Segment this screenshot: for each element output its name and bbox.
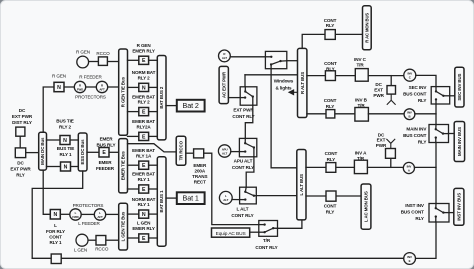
- relay RCCO right: [98, 57, 107, 66]
- relay EXT PWR CONT RLY: [240, 87, 257, 105]
- label INV B T/R: [355, 97, 368, 108]
- wire: [106, 239, 119, 241]
- svg-text:RCCO: RCCO: [96, 51, 110, 56]
- relay windows-lights feed: [265, 51, 286, 68]
- svg-text:EMER BAT: EMER BAT: [132, 172, 155, 177]
- svg-text:R GEN: R GEN: [137, 43, 152, 48]
- wire SEC relay to MAIN relay: [435, 104, 437, 125]
- label INV C T/R: [354, 57, 367, 67]
- svg-text:FEEDER: FEEDER: [96, 166, 115, 171]
- label SEC INV BUS CONT RLY: [403, 85, 427, 103]
- wire: [81, 213, 94, 215]
- protector L FWD: [70, 209, 81, 220]
- alternator APU ALT: [218, 145, 230, 157]
- relay EMER BAT RLY 2: [139, 108, 149, 116]
- svg-text:EMER: EMER: [193, 163, 207, 168]
- svg-text:PWR: PWR: [376, 143, 387, 148]
- wire INV B to chain: [415, 113, 436, 115]
- svg-text:RLY: RLY: [326, 23, 335, 28]
- svg-text:L FEEDER: L FEEDER: [78, 221, 100, 226]
- svg-text:CONT RLY: CONT RLY: [231, 213, 253, 218]
- wire: [47, 166, 61, 168]
- bus L GEN TIE BUS: [119, 203, 128, 250]
- svg-text:N: N: [57, 85, 61, 91]
- label CONT RLY INV B: [324, 98, 337, 109]
- relay MAIN INV BUS CONT RLY: [429, 125, 449, 143]
- transformer-rectifier INV A T/R: [354, 160, 367, 173]
- svg-text:NORM BAT: NORM BAT: [132, 197, 156, 202]
- svg-text:Equip AC BUS: Equip AC BUS: [216, 231, 246, 237]
- generator L GEN: [76, 234, 88, 246]
- svg-text:TRANS: TRANS: [192, 174, 207, 179]
- wire: [307, 113, 326, 115]
- label EMER BUS RLY: [96, 137, 115, 148]
- svg-text:EXT PWR: EXT PWR: [233, 108, 254, 113]
- svg-text:R GEN: R GEN: [76, 50, 90, 55]
- connector DC EXT PWR C: [387, 86, 396, 95]
- svg-text:CONT: CONT: [49, 234, 62, 239]
- label DC EXT PWR C: [373, 82, 384, 98]
- label DC EXT PWR DIST RLY: [12, 108, 33, 125]
- label APU ALT CONT RLY: [232, 159, 254, 171]
- wire: [109, 151, 119, 153]
- wire: [86, 86, 97, 88]
- svg-text:R AC MON BUS: R AC MON BUS: [364, 13, 369, 43]
- svg-text:MAIN DC Bus: MAIN DC Bus: [40, 137, 45, 165]
- label EXT PWR CONT RLY: [232, 108, 254, 120]
- svg-text:EMER BAT: EMER BAT: [132, 148, 155, 153]
- relay CONT RLY R AC MON: [325, 30, 335, 40]
- svg-text:L ALT BUS: L ALT BUS: [299, 174, 304, 196]
- relay L ALT CONT RLY: [240, 187, 257, 204]
- bus MAIN DC BUS: [39, 132, 47, 170]
- svg-text:T/R: T/R: [263, 238, 271, 243]
- wire MAIN relay to INST relay: [435, 143, 437, 204]
- svg-text:N: N: [53, 212, 57, 218]
- wire: [166, 105, 177, 107]
- relay N R GEN: [54, 82, 64, 91]
- svg-text:B: B: [409, 115, 411, 119]
- label CONT RLY R AC MON: [324, 18, 337, 28]
- inverter INV E: [404, 253, 416, 265]
- svg-text:AFT: AFT: [99, 87, 105, 91]
- svg-text:DC: DC: [375, 82, 382, 87]
- ground DC EXT PWR A: [386, 139, 395, 149]
- relay EMER BAT RLY 2A: [139, 132, 149, 140]
- wire MAIN DC BUS down to L N relay: [43, 170, 50, 214]
- svg-text:L: L: [54, 223, 57, 228]
- svg-text:Bat 2: Bat 2: [183, 101, 199, 110]
- svg-text:RLY: RLY: [16, 173, 25, 178]
- svg-text:AC EXT PWR: AC EXT PWR: [221, 71, 226, 98]
- relay CONT RLY L AC MON: [326, 191, 336, 201]
- relay APU ALT CONT RLY: [239, 138, 256, 156]
- bus R AC MON BUS: [363, 6, 372, 50]
- svg-text:EXT: EXT: [374, 88, 383, 93]
- svg-text:CONT: CONT: [324, 98, 337, 103]
- svg-text:ALT: ALT: [223, 198, 228, 202]
- relay N L GEN: [50, 210, 60, 220]
- label T/R CONT RLY: [255, 238, 277, 250]
- wire L ALT to relay: [232, 199, 240, 201]
- bus SEC INV BUS: [455, 67, 464, 107]
- svg-text:EXT PWR: EXT PWR: [10, 167, 31, 172]
- svg-text:RLY 1: RLY 1: [138, 202, 151, 207]
- svg-text:EMER: EMER: [99, 160, 113, 165]
- svg-text:PWR: PWR: [373, 93, 384, 98]
- rectifier EMER 200A TRANS RECT: [194, 149, 204, 158]
- wire: [335, 113, 355, 115]
- svg-text:RLY: RLY: [418, 98, 427, 103]
- relay INST INV BUS CONT RLY: [429, 204, 449, 223]
- wire trans-rect to T/R cont rly: [204, 153, 259, 224]
- label EMER BAT RLY 1: [132, 172, 155, 182]
- svg-text:RLY: RLY: [327, 157, 336, 162]
- svg-text:DC: DC: [17, 161, 24, 166]
- relay BUS TIE RLY 2: [60, 136, 70, 145]
- svg-text:RCCO: RCCO: [95, 246, 109, 251]
- wire: [149, 86, 158, 88]
- wire: [89, 61, 99, 63]
- relay NORM BAT RLY 2: [139, 83, 149, 91]
- label EMER 200A TRANS RECT: [192, 163, 207, 185]
- svg-text:INST INV: INST INV: [405, 203, 425, 208]
- bus L AC MON BUS: [361, 184, 371, 229]
- svg-text:MAIN INV: MAIN INV: [406, 127, 427, 132]
- svg-text:FWD: FWD: [72, 215, 78, 219]
- wire: [186, 152, 194, 154]
- svg-text:RLY 1: RLY 1: [49, 240, 62, 245]
- svg-text:BUS TIE: BUS TIE: [56, 119, 73, 124]
- svg-text:CONT RLY: CONT RLY: [232, 165, 254, 170]
- svg-text:CONT: CONT: [324, 61, 337, 66]
- svg-text:CONT RLY: CONT RLY: [255, 245, 277, 250]
- ground DC EXT PWR C: [387, 94, 396, 105]
- label EMER BAT RLY 2: [132, 94, 155, 104]
- inverter INV B: [404, 109, 415, 120]
- relay NORM BAT RLY 1: [139, 210, 149, 218]
- wire: [87, 151, 99, 153]
- wire INV A to chain: [415, 166, 437, 168]
- wire: [336, 33, 363, 35]
- svg-text:APU ALT: APU ALT: [234, 159, 253, 164]
- svg-text:SEC INV BUS: SEC INV BUS: [457, 73, 462, 100]
- label MAIN INV BUS CONT RLY: [403, 127, 427, 145]
- label EMER BAT RLY 1A: [132, 148, 155, 158]
- bus AC EXT PWR: [219, 66, 228, 103]
- svg-text:CONT: CONT: [325, 151, 338, 156]
- svg-text:200A: 200A: [195, 168, 206, 173]
- svg-text:RLY: RLY: [418, 140, 427, 145]
- label R GEN EMER RLY: [132, 43, 155, 53]
- wire tie to R ALT BUS: [245, 74, 298, 76]
- wire: [149, 237, 158, 239]
- transformer-rectifier INV B T/R: [355, 108, 369, 122]
- inverter INV A: [403, 162, 414, 173]
- wire: [128, 135, 139, 137]
- wire down to L ALT BUS: [271, 69, 297, 168]
- label BUS TIE RLY 1: [57, 146, 74, 157]
- alternator R ALT: [219, 50, 231, 62]
- relay RCCO left: [96, 236, 106, 246]
- svg-text:N: N: [64, 164, 68, 170]
- svg-text:EMER RLY: EMER RLY: [132, 226, 155, 231]
- wire: [128, 164, 139, 166]
- svg-text:INV A: INV A: [355, 150, 367, 155]
- svg-text:BUS CONT: BUS CONT: [403, 133, 426, 138]
- wire: [60, 213, 69, 215]
- wire EMER TIE BUS to TR RCCO: [128, 144, 177, 152]
- wire ESS DC BUS down-left: [32, 171, 82, 258]
- label DC EXT PWR RLY: [10, 161, 31, 178]
- wire: [149, 111, 158, 113]
- wire APU ALT to relay: [231, 151, 240, 153]
- bus INST INV BUS: [454, 188, 464, 225]
- wire EXT PWR relay to APU relay: [245, 105, 253, 138]
- inverter INV C: [404, 69, 416, 81]
- svg-text:FWD: FWD: [77, 87, 83, 91]
- wire: [306, 166, 326, 168]
- svg-text:N: N: [142, 85, 146, 91]
- label L GEN EMER RLY: [132, 221, 155, 231]
- svg-text:EXT: EXT: [377, 138, 386, 143]
- wire: [88, 239, 96, 241]
- wire R ALT to relay: [230, 56, 265, 58]
- label NORM BAT RLY 1: [132, 197, 156, 207]
- connector DC EXT PWR A: [386, 149, 396, 159]
- svg-text:EMER BAT: EMER BAT: [132, 94, 155, 99]
- wire: [128, 213, 139, 215]
- wire stub DC EXT PWR A: [390, 158, 392, 167]
- svg-text:T/R: T/R: [356, 62, 364, 67]
- svg-text:INV C: INV C: [354, 57, 367, 62]
- wire: [128, 188, 139, 190]
- svg-text:L ALT: L ALT: [237, 207, 249, 212]
- protector R AFT: [96, 81, 107, 92]
- wire stub DC EXT PWR C: [390, 76, 392, 86]
- svg-text:INV B: INV B: [355, 97, 368, 102]
- label NORM BAT RLY 2: [132, 70, 156, 80]
- wire: [367, 166, 403, 168]
- svg-text:BUS TIE: BUS TIE: [57, 146, 74, 151]
- svg-text:R FEEDER: R FEEDER: [79, 74, 102, 79]
- wire INV C to SEC relay: [416, 75, 436, 86]
- transformer-rectifier INV C T/R: [355, 69, 368, 82]
- svg-text:RLY 2: RLY 2: [138, 100, 151, 105]
- wire: [149, 213, 158, 215]
- wire APU relay to L ALT relay: [246, 157, 254, 187]
- svg-text:RLY: RLY: [415, 216, 424, 221]
- label INV A T/R: [355, 150, 367, 160]
- wire: [306, 195, 326, 197]
- svg-text:R GEN: R GEN: [52, 74, 66, 79]
- alternator L ALT: [219, 191, 232, 204]
- wire: [336, 166, 355, 168]
- bus MAIN INV BUS: [454, 122, 464, 162]
- relay TR RCCO: [176, 136, 186, 165]
- svg-text:R ALT BUS: R ALT BUS: [300, 72, 305, 94]
- bus BAT BUS 2: [157, 56, 166, 140]
- wire: [107, 61, 118, 63]
- svg-text:RLY 1A: RLY 1A: [136, 153, 152, 158]
- bus R GEN TIE BUS: [119, 49, 128, 135]
- svg-text:L GEN: L GEN: [137, 221, 151, 226]
- svg-text:RECT: RECT: [194, 180, 206, 185]
- wire: [128, 237, 139, 239]
- wire L ALT relay to L ALT BUS: [256, 195, 297, 197]
- battery Bat 1: [177, 192, 205, 204]
- svg-text:EMER BAT: EMER BAT: [132, 119, 155, 124]
- svg-text:DC: DC: [19, 108, 26, 113]
- svg-text:AFT: AFT: [97, 215, 103, 219]
- relay L GEN EMER RLY: [139, 234, 149, 242]
- svg-text:MAIN INV BUS: MAIN INV BUS: [457, 127, 462, 156]
- svg-text:N: N: [63, 138, 67, 144]
- svg-text:INST INV BUS: INST INV BUS: [456, 193, 461, 221]
- svg-text:PROTECTORS: PROTECTORS: [73, 203, 104, 208]
- wire: [307, 75, 326, 77]
- bus Equip AC BUS: [212, 228, 250, 237]
- relay BUS TIE RLY 1: [61, 162, 71, 171]
- label DC EXT PWR A: [376, 132, 387, 148]
- wire: [64, 86, 74, 88]
- wire: [336, 195, 361, 197]
- bus BAT BUS 1: [157, 157, 166, 246]
- protector L AFT: [94, 209, 105, 220]
- svg-text:BAT BUS 2: BAT BUS 2: [159, 86, 164, 109]
- wire: [128, 111, 139, 113]
- svg-text:EXT PWR: EXT PWR: [12, 114, 33, 119]
- wire: [71, 166, 79, 168]
- protector R FWD: [74, 81, 85, 92]
- svg-text:N: N: [142, 212, 146, 218]
- label L FDR RLY CONT RLY 1: [46, 223, 65, 245]
- svg-text:BAT BUS 1: BAT BUS 1: [159, 190, 164, 213]
- svg-text:SEC INV: SEC INV: [409, 85, 428, 90]
- svg-text:CONT: CONT: [324, 203, 337, 208]
- label EMER BAT RLY 2A: [132, 119, 155, 129]
- wire ext-pwr-rly to main-dc-bus: [26, 152, 39, 154]
- bus L ALT BUS: [297, 150, 306, 220]
- wire bottom DC run: [32, 257, 404, 259]
- label CONT RLY INV A: [325, 151, 338, 162]
- wire: [70, 139, 78, 141]
- label CONT RLY INV C: [324, 61, 337, 71]
- wire R GEN relay to MAIN DC BUS: [43, 87, 54, 132]
- svg-text:ALT: ALT: [222, 151, 227, 155]
- wire: [106, 213, 119, 215]
- relay EMER BAT RLY 1: [139, 185, 149, 193]
- svg-text:EMER: EMER: [100, 137, 114, 142]
- wire: [108, 86, 119, 88]
- wire: [368, 113, 404, 115]
- wire: [149, 135, 158, 137]
- wire: [149, 59, 158, 61]
- svg-text:Windows: Windows: [274, 79, 294, 84]
- wire relay to R ALT BUS: [287, 60, 298, 62]
- wire: [47, 139, 61, 141]
- relay CONT RLY INV B: [326, 110, 335, 118]
- svg-text:ALT: ALT: [222, 56, 227, 60]
- bus R ALT BUS: [298, 48, 307, 117]
- svg-text:RLY: RLY: [326, 210, 335, 215]
- svg-text:DC: DC: [378, 132, 385, 137]
- svg-text:RLY 2: RLY 2: [138, 76, 151, 81]
- svg-text:BUS CONT: BUS CONT: [403, 91, 426, 96]
- relay R GEN EMER RLY: [139, 56, 149, 64]
- svg-text:Bat 1: Bat 1: [183, 194, 199, 203]
- svg-text:& lights: & lights: [275, 85, 292, 90]
- svg-text:L GEN: L GEN: [74, 247, 87, 252]
- svg-text:EMER TIE Bus: EMER TIE Bus: [121, 151, 126, 181]
- wire T/R relay to L ALT BUS: [278, 220, 302, 228]
- wire: [368, 75, 404, 77]
- svg-text:L GEN TIE Bus: L GEN TIE Bus: [121, 211, 126, 241]
- wire Equip AC BUS to T/R relay: [250, 231, 259, 233]
- svg-text:CONT: CONT: [324, 18, 337, 23]
- relay CONT RLY INV C: [325, 71, 335, 81]
- wire INST relay down to INV E: [415, 222, 436, 258]
- label INST INV BUS CONT RLY: [401, 203, 425, 221]
- label BUS TIE RLY 2: [56, 119, 73, 130]
- relay DC EXT PWR DIST RLY: [16, 127, 25, 136]
- wire: [449, 212, 454, 214]
- wire AC EXT PWR to relay: [228, 97, 240, 99]
- svg-text:RLY 2: RLY 2: [59, 125, 72, 130]
- svg-text:CONT RLY: CONT RLY: [232, 114, 254, 119]
- wire R ALT BUS up: [302, 34, 325, 48]
- svg-text:PROTECTORS: PROTECTORS: [75, 94, 106, 99]
- relay EMER BAT RLY 1A: [139, 161, 149, 169]
- svg-text:BUS CONT: BUS CONT: [401, 210, 424, 215]
- relay EMER BUS RLY: [99, 148, 109, 158]
- svg-text:RLY: RLY: [326, 104, 335, 109]
- wire: [128, 59, 139, 61]
- label CONT RLY L AC MON: [324, 203, 337, 214]
- svg-text:DIST RLY: DIST RLY: [12, 120, 32, 125]
- label L ALT CONT RLY: [231, 207, 253, 219]
- relay CONT RLY INV A: [326, 163, 336, 173]
- label EMER FEEDER: [96, 160, 115, 171]
- wire: [166, 197, 177, 199]
- bus EMER TIE BUS: [119, 139, 128, 193]
- relay bottom unlabeled: [51, 254, 61, 264]
- wire: [128, 86, 139, 88]
- svg-text:ESS DC Bus: ESS DC Bus: [80, 139, 85, 165]
- wire: [335, 75, 356, 77]
- arrow windows-lights tap: [289, 90, 298, 95]
- bus ESS DC BUS: [78, 133, 87, 171]
- wire: [449, 133, 455, 135]
- generator R GEN: [77, 56, 89, 68]
- wire dist-rly to ext-pwr-rly: [19, 136, 21, 148]
- wire down to EXT PWR CONT RLY: [244, 75, 246, 87]
- svg-text:E: E: [409, 259, 411, 263]
- relay T/R CONT RLY: [259, 221, 278, 237]
- wire: [149, 188, 158, 190]
- svg-text:NORM BAT: NORM BAT: [132, 70, 156, 75]
- svg-text:TR RCCO: TR RCCO: [179, 140, 184, 160]
- relay SEC INV BUS CONT RLY: [431, 87, 450, 104]
- label Windows and lights: [274, 79, 294, 91]
- svg-text:FOR RLY: FOR RLY: [46, 229, 65, 234]
- svg-text:RLY2A: RLY2A: [137, 125, 152, 130]
- battery Bat 2: [177, 100, 205, 112]
- svg-text:L AC MON BUS: L AC MON BUS: [364, 191, 369, 222]
- svg-text:EMER RLY: EMER RLY: [132, 48, 155, 53]
- svg-text:RLY 1: RLY 1: [59, 152, 72, 157]
- wire: [450, 95, 455, 97]
